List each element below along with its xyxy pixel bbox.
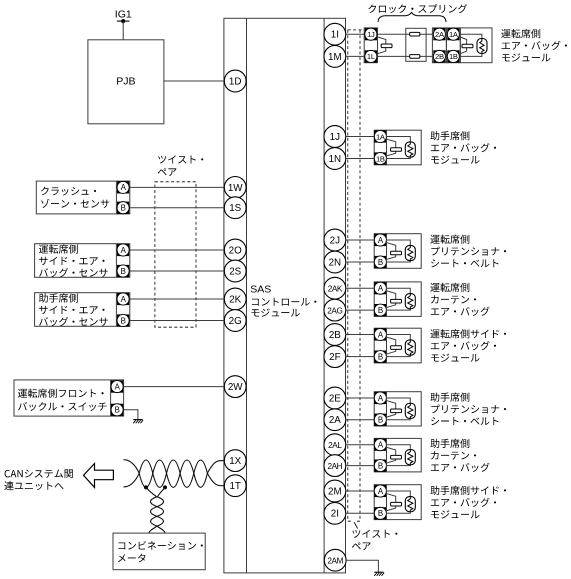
pin A (passenger curtain air bag) [374,439,386,451]
brace (clock spring range) [378,12,446,22]
svg-text:2S: 2S [229,266,241,277]
svg-text:1A: 1A [449,30,459,39]
leader line (twisted pair label) [354,522,357,528]
wire passenger sensor A to 2K [130,298,224,300]
wire PJB to 1D [164,80,224,82]
passenger air bag module (squib) [387,130,422,165]
wire driver sensor B to 2S [130,270,224,272]
connector (passenger side air bag module) [374,485,386,520]
svg-text:2AL: 2AL [328,441,342,450]
connector (module side, pins 1A/1B) [446,28,460,63]
svg-text:1W: 1W [228,183,243,194]
label: twisted pair (left) [158,155,203,163]
connector (driver pretensioner seat belt) [374,234,386,269]
crash zone sensor [36,181,130,214]
svg-text:B: B [121,316,126,325]
svg-text:2A: 2A [435,30,445,39]
terminal 1T (SAS module) [224,475,246,497]
terminal 2AM (SAS module, ground pin) [324,549,346,571]
wire to passenger pretensioner seat belt (pin A) [346,397,375,399]
svg-text:1D: 1D [229,76,242,87]
svg-text:2AK: 2AK [328,285,343,294]
wire to driver side air bag module (pin B) [346,356,375,358]
wire CAN-L braid strand (1T) [124,460,225,487]
connector (driver side air bag module) [374,328,386,363]
wire 1J to clock spring [378,33,433,35]
pin 1L [365,50,377,62]
label: driver curtain air bag [430,283,469,292]
svg-text:1L: 1L [367,52,375,61]
label: driver pretensioner seat belt [430,235,469,244]
pin 1A [447,28,459,40]
connector (passenger curtain air bag) [374,438,386,472]
terminal 2J (SAS module) [324,229,346,251]
svg-text:2K: 2K [229,294,241,305]
PJB junction box [88,40,164,124]
wire to driver pretensioner seat belt (pin B) [346,261,375,263]
svg-text:2AH: 2AH [327,462,342,471]
svg-text:B: B [378,306,383,315]
label: passenger air bag module [430,131,469,140]
svg-text:2E: 2E [329,393,341,404]
terminal 1X (SAS module) [224,450,246,472]
svg-text:2B: 2B [435,52,444,61]
svg-text:1M: 1M [328,52,342,63]
terminal 2S (SAS module) [224,260,246,282]
terminal 2I (SAS module) [324,502,346,524]
terminal B (crash zone sensor) [117,202,129,214]
terminal 1S (SAS module) [224,197,246,219]
svg-text:B: B [378,509,383,518]
wire passenger sensor B to 2G [130,320,224,322]
wire 1M to clock spring connector 1L [346,55,365,57]
shorting clip (1J/1L connector) [376,37,386,45]
passenger curtain air bag (squib) [387,438,422,472]
driver front buckle switch [14,380,124,416]
driver-side side air bag sensor [35,244,130,278]
terminal 2AL (SAS module) [324,434,346,456]
terminal 2E (SAS module) [324,387,346,409]
passenger pretensioner seat belt (squib) [387,392,422,426]
svg-text:B: B [121,267,126,276]
svg-text:1X: 1X [229,456,241,467]
label: twisted pair (right) [352,530,397,538]
pin A (passenger pretensioner seat belt) [374,392,386,404]
terminal A (crash zone sensor) [117,181,129,193]
terminal 2M (SAS module) [324,480,346,502]
pin B (passenger side air bag module) [374,507,386,519]
label: passenger curtain air bag [430,439,469,448]
clock spring [406,28,426,61]
wire buckle switch A to 2W [124,386,224,388]
wire to passenger curtain air bag (pin A) [346,444,375,446]
label: passenger side air bag module [430,486,506,495]
svg-text:SAS: SAS [250,283,271,295]
svg-text:1J: 1J [367,30,375,39]
svg-text:B: B [115,406,120,415]
svg-text:2N: 2N [329,257,342,268]
svg-text:1J: 1J [330,132,340,143]
pin A (passenger side air bag module) [374,485,386,497]
label: driver side air bag module [430,329,506,338]
wire buckle switch B to ground [124,410,138,420]
wire 1L to clock spring [378,55,433,57]
svg-text:2AG: 2AG [327,307,342,316]
pin B (driver side air bag module) [374,351,386,363]
terminal A (passenger side air bag sensor) [117,293,129,305]
terminal 1D (SAS module) [224,70,246,92]
terminal 2AH (SAS module) [324,455,346,477]
terminal 2A (SAS module) [324,409,346,431]
connector (passenger pretensioner seat belt) [374,392,386,426]
terminal A (driver side air bag sensor) [117,244,129,256]
svg-text:1B: 1B [449,52,458,61]
terminal 2N (SAS module) [324,251,346,273]
driver pretensioner seat belt (squib) [387,234,422,269]
driver side air bag module (squib) [387,328,422,363]
junction node (braid tap 2) [163,485,167,489]
pin B (driver pretensioner seat belt) [374,256,386,268]
wire CAN-H braid strand (1X) [124,460,225,488]
connector (passenger air bag module) [374,130,386,165]
svg-text:1N: 1N [329,154,342,165]
terminal 1I (SAS module) [324,23,346,45]
wire 1I to clock spring connector 1J [346,33,365,35]
passenger-side side air bag sensor [35,293,130,327]
svg-text:1I: 1I [331,30,339,41]
pin A (driver pretensioner seat belt) [374,234,386,246]
svg-text:1A: 1A [376,132,386,141]
ground (2AM) [374,571,383,573]
svg-text:1T: 1T [229,481,240,492]
connector (column side, pins 1J/1L) [364,28,377,63]
wire to passenger side air bag module (pin B) [346,512,375,514]
wire crash sensor A to 1W [130,186,224,188]
terminal 1J (SAS module) [324,126,346,148]
terminal 1M (SAS module) [324,46,346,68]
twisted pair marker (dashed box, left) [155,182,196,327]
pin 1A (passenger air bag module) [374,130,386,142]
terminal 2G (SAS module) [224,310,246,332]
svg-text:1S: 1S [229,203,241,214]
svg-text:B: B [378,461,383,470]
svg-text:B: B [378,258,383,267]
terminal A (buckle switch) [111,381,123,393]
wire crash sensor B to 1S [130,207,224,209]
wire IG1 to PJB [122,21,124,40]
connector (clock spring side, pins 2A/2B) [432,28,446,63]
CAN bus arrow (to CAN system units) [84,464,114,488]
terminal 2O (SAS module) [224,239,246,261]
svg-text:B: B [378,352,383,361]
label: driver air bag module [501,29,540,38]
svg-text:2B: 2B [329,330,341,341]
terminal 2F (SAS module) [324,346,346,368]
terminal 1N (SAS module) [324,148,346,170]
svg-text:2A: 2A [329,415,341,426]
label: to CAN system related units [5,469,73,478]
svg-text:B: B [378,416,383,425]
terminal 2AK (SAS module) [324,277,346,299]
pin 2A [433,28,445,40]
ground (buckle switch B) [133,419,142,421]
wire driver sensor A to 2O [130,249,224,251]
terminal B (driver side air bag sensor) [117,265,129,277]
terminal 2B (SAS module) [324,324,346,346]
terminal B (buckle switch) [111,404,123,416]
terminal 2AG (SAS module) [324,299,346,321]
wire to passenger curtain air bag (pin B) [346,465,375,467]
wire to passenger air bag module (pin 1B) [346,158,375,160]
pin 1J [365,28,377,40]
pin 1B (passenger air bag module) [374,152,386,164]
svg-text:B: B [121,204,126,213]
svg-text:2I: 2I [331,509,339,520]
combination meter unit [113,533,205,570]
pin B (driver curtain air bag) [374,304,386,316]
wire braid drop strand A (to combination meter) [146,487,164,533]
junction node (braid tap 1) [144,485,148,489]
wire to driver curtain air bag (pin B) [346,309,375,311]
pin 1B [447,50,459,62]
svg-text:2M: 2M [328,486,342,497]
SAS control module U1 (connector strip) [224,18,346,573]
svg-text:2AM: 2AM [327,557,343,566]
terminal 1W (SAS module) [224,177,246,199]
wire to passenger side air bag module (pin A) [346,490,375,492]
svg-text:2O: 2O [229,245,242,256]
terminal 2W (SAS module) [224,376,246,398]
wire braid drop strand B (to combination meter) [151,487,166,533]
wire 2AM to ground [346,560,378,572]
label: clock spring [368,4,467,13]
passenger side air bag module (squib) [387,485,422,520]
twisted pair marker (dashed corridor, right) [348,30,362,521]
svg-text:2G: 2G [229,316,242,327]
svg-text:1B: 1B [376,154,385,163]
svg-text:2W: 2W [228,382,243,393]
terminal B (passenger side air bag sensor) [117,314,129,326]
label: passenger pretensioner seat belt [430,392,469,401]
pin B (passenger pretensioner seat belt) [374,414,386,426]
connector (driver curtain air bag) [374,282,386,317]
wire to driver pretensioner seat belt (pin A) [346,239,375,241]
wire to driver side air bag module (pin A) [346,334,375,336]
pin A (driver curtain air bag) [374,282,386,294]
svg-text:PJB: PJB [116,75,135,87]
pin A (driver side air bag module) [374,328,386,340]
wire to driver curtain air bag (pin A) [346,287,375,289]
pin B (passenger curtain air bag) [374,460,386,472]
driver air bag module (squib) [460,28,492,63]
pin 2B [433,50,445,62]
terminal 2K (SAS module) [224,288,246,310]
svg-text:IG1: IG1 [115,9,132,21]
wire to passenger pretensioner seat belt (pin B) [346,419,375,421]
svg-text:2F: 2F [329,352,340,363]
wire to passenger air bag module (pin 1A) [346,136,375,138]
driver curtain air bag (squib) [387,282,422,317]
svg-text:2J: 2J [330,235,340,246]
